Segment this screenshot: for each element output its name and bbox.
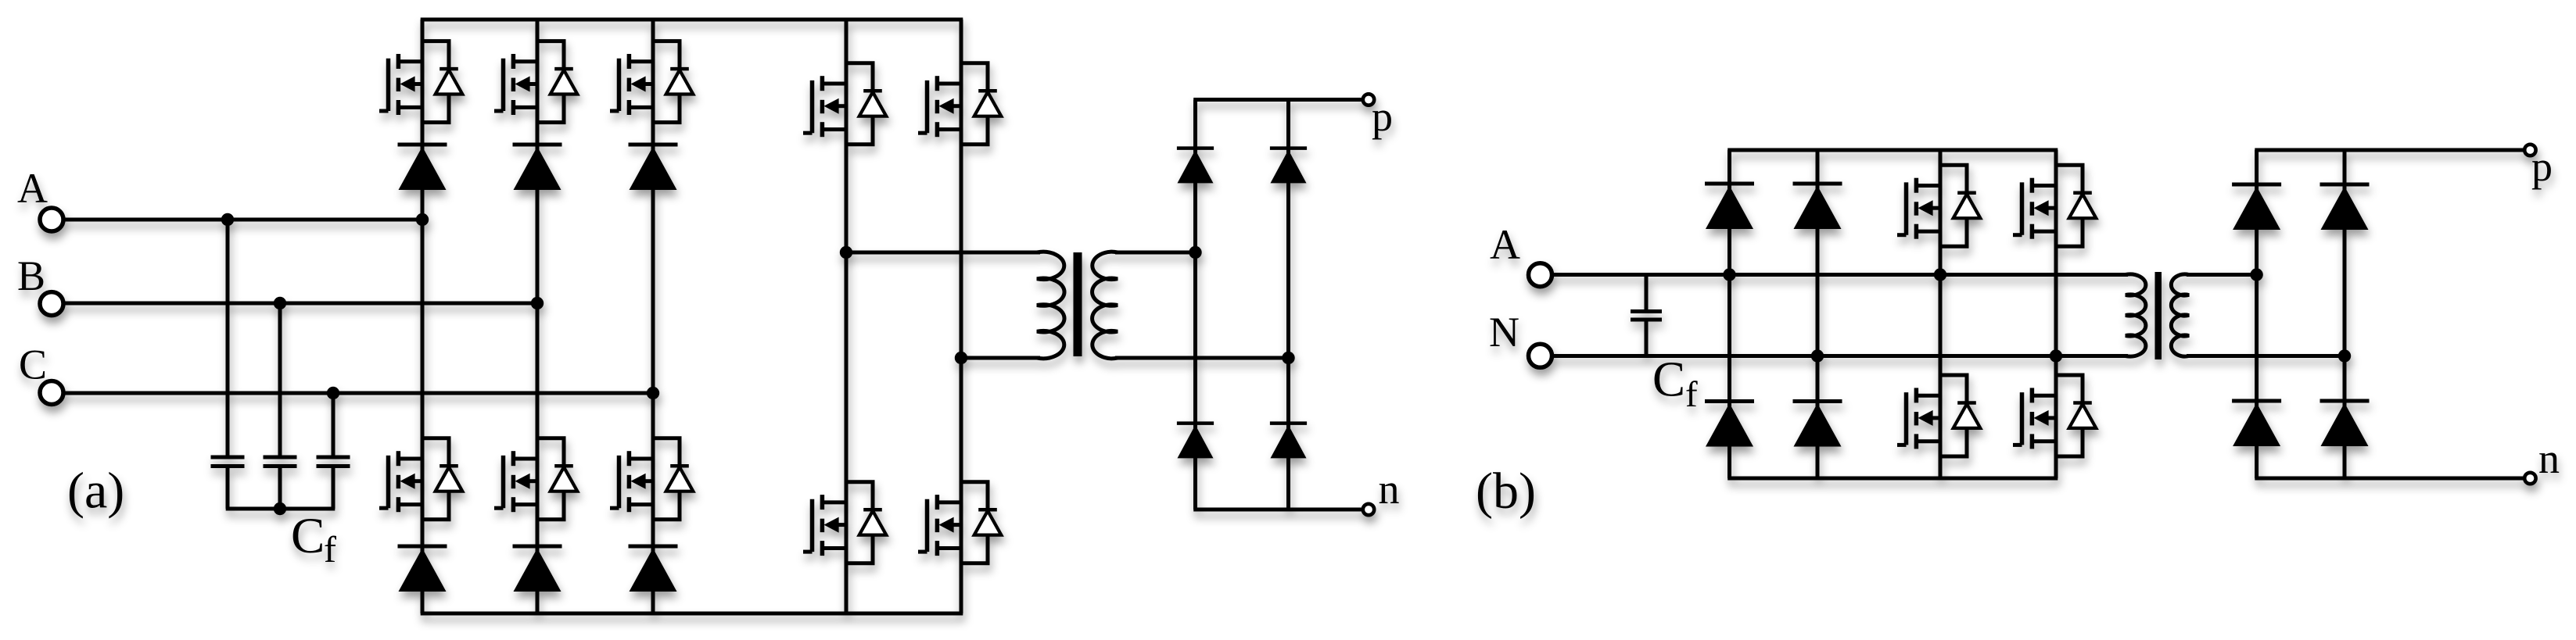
terminal B (a) [40,292,63,316]
wire: phase C line [63,392,653,395]
wire: output bridge left leg (a) [1193,100,1197,510]
bridge diode top leg2 (b) [1793,184,1842,229]
junction: A-cap tap [221,213,234,226]
wire: top DC rail (a) [421,18,963,22]
terminal p (a) [1363,94,1374,105]
transformer T2 core [2155,272,2162,359]
svg-text:A: A [17,165,48,212]
terminal n (b) [2524,473,2535,484]
MOSFET Q4 H-bridge bottom-right [918,482,1001,563]
svg-text:n: n [1379,466,1400,513]
svg-text:f: f [1685,374,1698,415]
MOSFET Q3 H-bridge bottom-left [803,482,886,563]
svg-text:f: f [324,529,336,570]
wire: secondary top (b) [2187,273,2257,277]
MOSFET top leg3 (b) [1897,165,1980,246]
terminal C (a) [40,381,63,405]
output diode D1 (a) [1177,148,1214,184]
junction: A-leg3 (b) [1934,268,1946,281]
terminal n (a) [1363,504,1374,515]
series diode bottom leg A [398,546,447,592]
junction: C-leg [647,387,659,399]
capacitor Cf phase B [264,457,297,467]
MOSFET Q2 H-bridge top-right [918,63,1001,145]
wire: output bottom rail to n (b) [2255,477,2524,481]
MOSFET S2 top leg B with body diode [494,41,577,123]
transformer T2 secondary winding [2171,274,2189,356]
capacitor Cf phase A [211,457,245,467]
junction: A-leg [416,213,429,226]
output diode D4 (a) [1270,424,1307,459]
wire: secondary top to output bridge [1115,251,1196,255]
wire: H-bridge right leg vertical [960,20,963,613]
junction: B-leg [531,297,544,309]
transformer T1 primary winding [1037,252,1064,358]
junction: secondary bottom node (a) [1282,352,1294,364]
transformer T1 secondary winding [1092,252,1118,358]
wire: output bottom rail to n (a) [1193,508,1363,512]
series diode bottom leg B [513,546,562,592]
wire: neutral N line (b) to primary bottom [1552,354,2129,358]
output diode top-left (b) [2232,184,2281,230]
wire: H-bridge left midpoint to primary top [846,251,1040,255]
wire: phase leg C vertical [651,20,655,613]
MOSFET Q1 H-bridge top-left [803,63,886,145]
svg-text:(b): (b) [1476,463,1536,520]
terminal p (b) [2524,145,2535,156]
junction: cap star point [274,502,286,515]
wire: secondary bottom (b) [2187,354,2345,358]
series diode top leg B [513,145,562,190]
output diode bottom-left (b) [2232,401,2281,446]
svg-text:B: B [17,252,45,299]
wire: MOSFET leg 3 (b) [1939,150,1943,478]
terminal A (b) [1529,263,1552,287]
series diode top leg A [398,145,447,190]
wire: MOSFET leg 4 (b) [2054,150,2058,478]
wire: output top rail to p (b) [2255,148,2524,152]
wire: cap stub bottom (b) [1645,320,1649,356]
series diode bottom leg C [629,546,678,592]
wire: output bridge left leg (b) [2255,150,2258,478]
junction: C-cap tap [327,387,339,399]
output diode D2 (a) [1270,148,1307,184]
wire: cap C to star bus [332,467,335,509]
wire: phase leg A vertical [421,20,425,613]
junction: secondary bottom node (b) [2338,349,2351,362]
junction: N-leg4 (b) [2050,349,2062,362]
series diode top leg C [629,145,678,190]
wire: phase B line [63,302,537,306]
MOSFET top leg4 (b) [2013,165,2096,246]
transformer T1 core [1074,252,1082,356]
output diode D3 (a) [1177,424,1214,459]
output diode top-right (b) [2320,184,2370,230]
MOSFET bottom leg3 (b) [1897,375,1980,456]
terminal A (a) [40,208,63,231]
bridge diode bottom leg2 (b) [1793,402,1842,447]
wire: cap stub top (b) [1645,275,1649,312]
wire: top rail (b) [1727,148,2058,152]
transformer T2 primary winding [2126,274,2146,356]
wire: bottom rail (b) [1727,477,2058,481]
wire: phase A line (b) to primary top [1552,273,2129,277]
output diode bottom-right (b) [2320,401,2370,446]
junction: H-bridge right midpoint [955,352,967,364]
wire: capacitor star bus [226,507,335,511]
wire: output top rail to p (a) [1193,98,1363,102]
svg-text:N: N [1489,309,1519,356]
wire: bottom DC rail (a) [421,612,963,616]
svg-text:C: C [1652,352,1685,407]
wire: cap B to star bus [278,467,282,509]
wire: bridge leg 1 (b) [1727,150,1731,478]
wire: cap branch from C [332,393,335,457]
junction: A-leg1 (b) [1723,268,1735,281]
MOSFET S4 bottom leg A with body diode [379,438,462,520]
svg-text:C: C [19,341,47,388]
wire: phase A line [63,218,422,222]
capacitor Cf phase C [317,457,350,467]
wire: cap A to star bus [226,467,230,509]
svg-text:p: p [1372,93,1393,140]
svg-text:(a): (a) [67,463,124,520]
junction: secondary top node (b) [2250,268,2262,281]
MOSFET bottom leg4 (b) [2013,375,2096,456]
wire: cap branch from B [278,303,282,457]
wire: cap branch from A [226,220,230,457]
svg-text:C: C [291,508,325,564]
bridge diode bottom leg1 (b) [1705,402,1754,447]
junction: H-bridge left midpoint [840,246,852,259]
wire: phase leg B vertical [536,20,540,613]
wire: output bridge right leg (a) [1286,100,1290,510]
bridge diode top leg1 (b) [1705,184,1754,229]
capacitor Cf (b) [1631,312,1662,320]
junction: N-leg2 (b) [1811,349,1824,362]
junction: B-cap tap [274,297,286,309]
wire: H-bridge right midpoint to primary bottom [961,356,1040,360]
wire: H-bridge left leg vertical [845,20,849,613]
terminal N (b) [1529,344,1552,367]
svg-text:p: p [2531,143,2553,190]
svg-text:n: n [2538,435,2560,482]
wire: secondary bottom to output bridge [1115,356,1289,360]
wire: output bridge right leg (b) [2343,150,2347,478]
MOSFET S3 top leg C with body diode [610,41,693,123]
junction: secondary top node (a) [1189,246,1201,259]
MOSFET S5 bottom leg B with body diode [494,438,577,520]
wire: bridge leg 2 (b) [1816,150,1820,478]
svg-text:A: A [1490,221,1520,268]
MOSFET S6 bottom leg C with body diode [610,438,693,520]
MOSFET S1 top leg A with body diode [379,41,462,123]
